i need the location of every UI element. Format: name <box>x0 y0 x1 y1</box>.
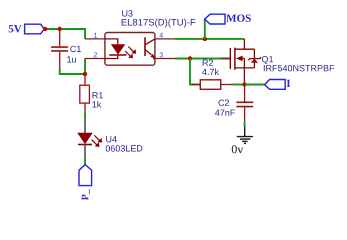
wire C1 bottom to R1 junction <box>60 69 85 75</box>
drain vertical <box>243 39 245 49</box>
pin 2 <box>85 58 105 60</box>
gate bar <box>229 48 231 69</box>
resistor R1 <box>80 74 103 113</box>
resistor R2 <box>192 60 232 90</box>
pin 3 <box>155 58 175 60</box>
transistor Q1 <box>221 39 334 85</box>
port MOS <box>205 14 251 24</box>
wire LED to P_ port <box>84 159 86 166</box>
wire MOS vertical <box>204 19 206 39</box>
source vertical <box>243 68 245 85</box>
port I <box>265 80 291 90</box>
source stub <box>235 67 255 69</box>
capacitor C1 <box>51 29 81 69</box>
junction dot R2/source/C2/I <box>242 82 246 86</box>
internal LED <box>105 39 118 44</box>
junction dot C1/R1/pin2 <box>83 72 87 76</box>
junction dot at 5V tip <box>43 27 47 31</box>
wire pin4 to drain corner <box>175 38 245 40</box>
wire down to R2 <box>190 59 200 85</box>
ground 0v <box>232 127 253 154</box>
capacitor C2 <box>215 85 253 122</box>
junction dot MOS branch <box>203 37 207 41</box>
wire 5V to opto pin1 <box>44 29 85 39</box>
junction dot pin3/R2 <box>188 56 192 60</box>
junction dot C1 branch <box>58 27 62 31</box>
pin 1 <box>85 38 105 40</box>
wire C2 to ground <box>244 122 246 127</box>
channel bar <box>234 48 236 70</box>
body diode <box>253 49 255 58</box>
wire opto pin2 down to junction <box>84 59 86 75</box>
port 5V <box>9 24 45 34</box>
LED U4 <box>78 120 142 159</box>
drain stub <box>235 48 255 50</box>
phototransistor <box>144 37 146 56</box>
emission arrows <box>125 47 136 59</box>
wire R1 to LED <box>84 113 86 120</box>
wire to I port <box>245 84 265 86</box>
port P_ <box>79 165 92 201</box>
body stub with arrow <box>238 57 244 59</box>
body-source vertical <box>243 58 245 68</box>
gate pin <box>221 58 230 60</box>
wire pin3 to gate <box>175 58 230 60</box>
pin 4 <box>155 38 175 40</box>
wire R2 to junction <box>231 84 245 86</box>
optocoupler U3 <box>85 10 195 65</box>
